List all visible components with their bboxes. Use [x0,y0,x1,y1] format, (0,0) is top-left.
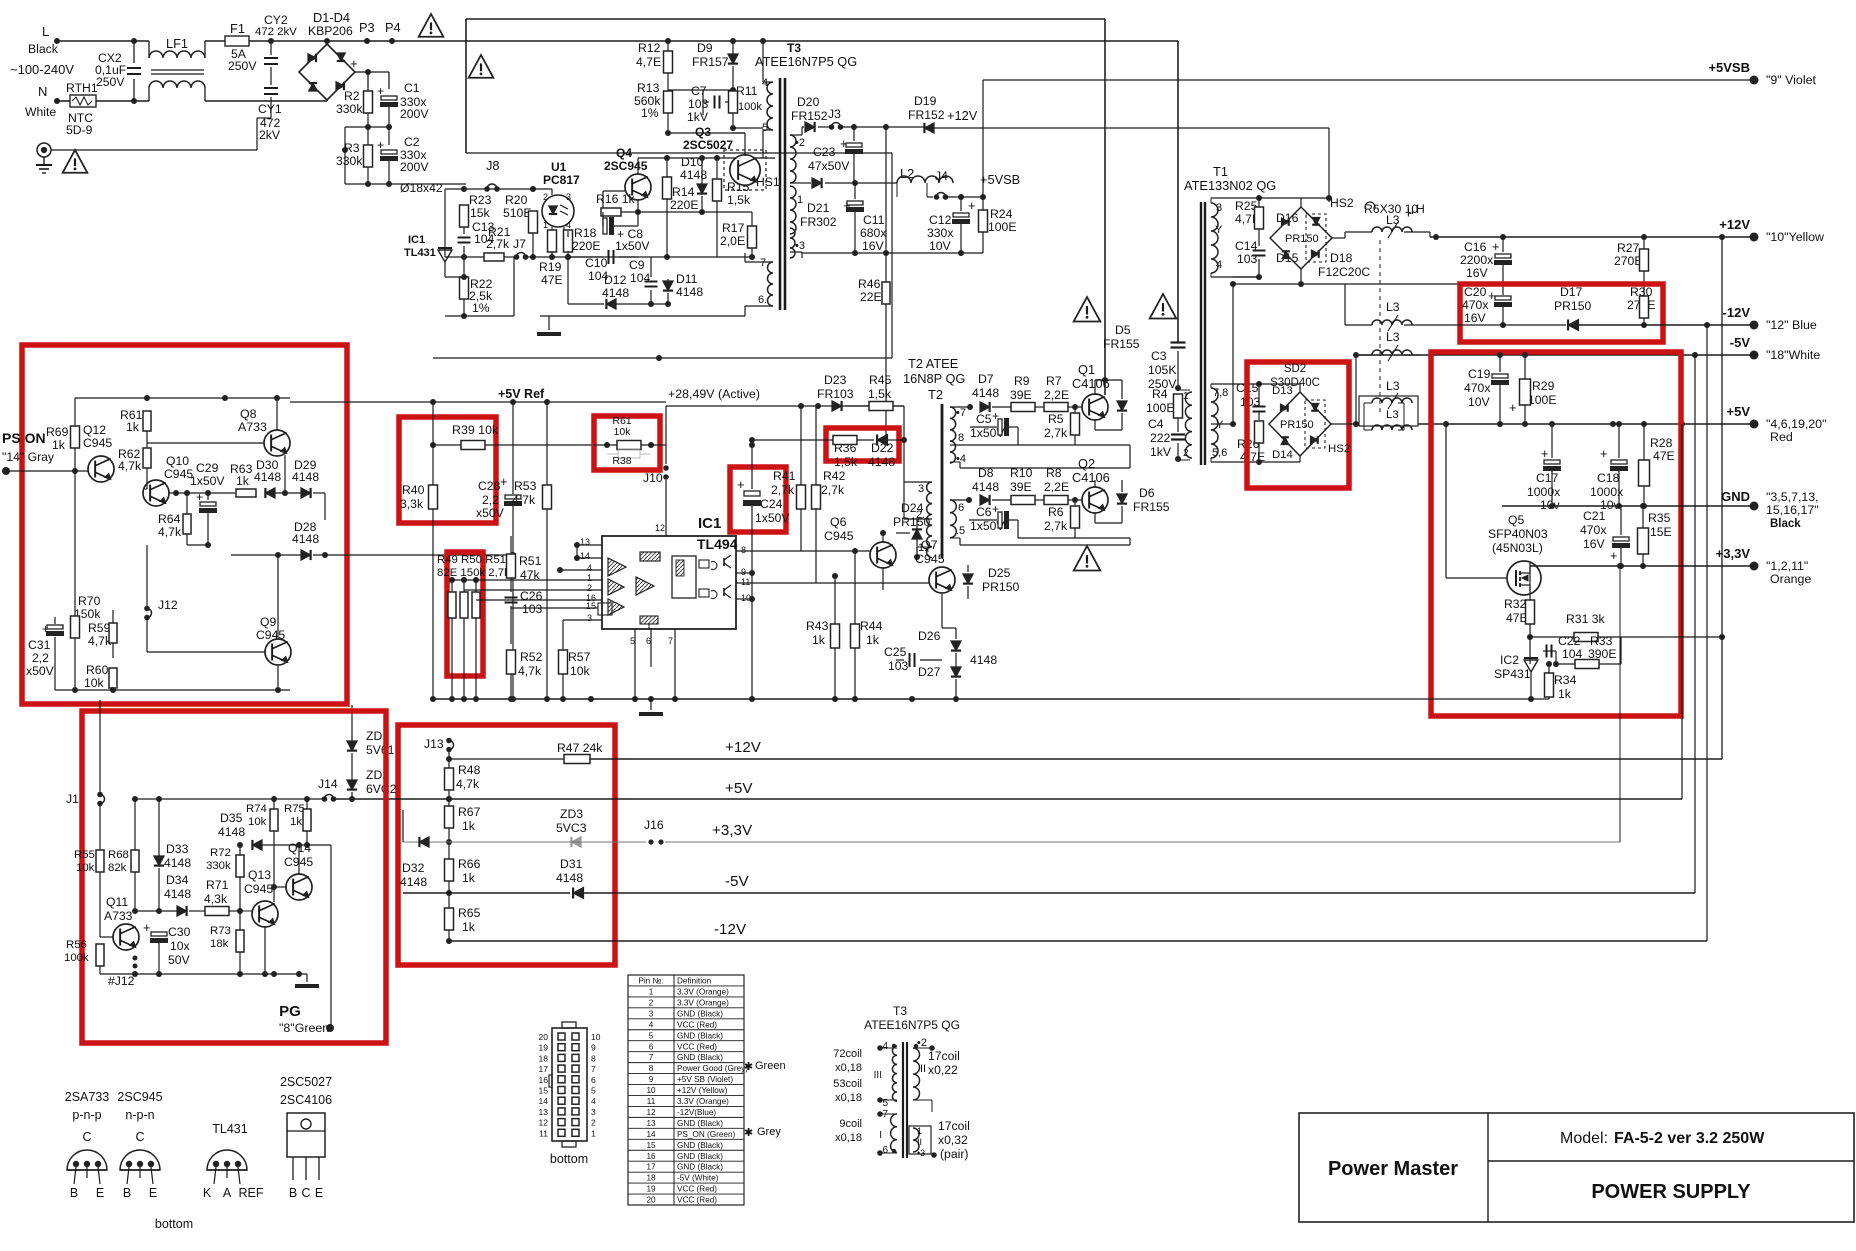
wire 5vsb riser [982,80,984,197]
wire earth [51,149,257,151]
svg-text:C28: C28 [478,479,501,493]
svg-text:100E: 100E [1528,393,1556,407]
ic internal comp3 [608,599,624,615]
red box C20 D17 R30 [1460,284,1663,342]
svg-text:J8: J8 [486,158,500,173]
svg-text:4,7k: 4,7k [118,459,142,473]
svg-text:2: 2 [587,583,592,593]
svg-text:Grey: Grey [757,1126,781,1138]
svg-text:PS_ON (Green): PS_ON (Green) [677,1130,736,1139]
warning triangle 4 [1074,297,1101,322]
svg-text:10k: 10k [76,862,95,874]
wire sd2 bottom [1299,456,1301,462]
svg-text:1%: 1% [472,301,490,315]
svg-text:Q12: Q12 [83,423,106,437]
dashed core L3 [1379,240,1381,412]
svg-text:R39 10k: R39 10k [452,423,499,437]
svg-text:200V: 200V [400,160,429,174]
svg-text:+28,49V (Active): +28,49V (Active) [668,387,760,401]
wire d21 row [802,182,811,184]
wire ic2 bottom [1240,698,1549,700]
T3d winding II upper [913,1048,920,1100]
svg-text:105K: 105K [1148,363,1176,377]
svg-text:1: 1 [917,1126,922,1136]
svg-text:-5V: -5V [1730,335,1751,350]
svg-text:C24: C24 [760,497,783,511]
svg-text:15: 15 [586,601,596,611]
svg-text:C: C [301,1186,310,1200]
svg-text:L3: L3 [1386,379,1400,393]
svg-text:E: E [315,1186,323,1200]
wire L3 to +5V [1404,423,1446,425]
svg-text:R14: R14 [672,185,695,199]
svg-text:6: 6 [591,1075,596,1085]
svg-text:B: B [70,1186,78,1200]
T1 lower winding 1-2 [1185,392,1192,458]
svg-text:C25: C25 [884,645,907,659]
svg-text:16V: 16V [1466,266,1489,280]
ic IC1 TL494 body [602,536,736,629]
svg-text:4: 4 [566,220,571,230]
svg-text:15: 15 [646,1141,656,1150]
svg-text:R29: R29 [1532,379,1555,393]
wire q14 [298,845,300,874]
wire psON right rail [289,398,291,690]
svg-text:12: 12 [655,523,665,533]
terminal PS_ON [2,467,10,475]
svg-text:C12: C12 [929,213,952,227]
svg-text:J10: J10 [643,471,663,485]
svg-text:P4: P4 [385,20,401,35]
svg-text:bottom: bottom [550,1152,588,1166]
svg-text:1,5k: 1,5k [834,455,858,469]
T3d winding III [892,1046,897,1101]
svg-text:4,7k: 4,7k [518,664,542,678]
svg-text:B: B [123,1186,131,1200]
svg-text:ATEE16N7P5 QG: ATEE16N7P5 QG [864,1018,960,1032]
svg-text:1x50V: 1x50V [755,511,790,525]
svg-text:R65: R65 [458,906,481,920]
svg-text:C22: C22 [1558,634,1581,648]
svg-text:FR152: FR152 [791,109,828,123]
svg-text:6: 6 [649,1042,654,1051]
svg-text:1k: 1k [290,816,302,828]
svg-text:PR150: PR150 [982,580,1019,594]
svg-text:Model:: Model: [1560,1130,1608,1147]
svg-text:1k: 1k [462,920,476,934]
svg-text:L3: L3 [1386,330,1400,344]
ic internal gate1 [699,560,709,568]
svg-text:16V: 16V [1464,311,1487,325]
svg-text:R17: R17 [722,221,745,235]
bus vertical x1105 [1104,19,1106,395]
svg-text:T3: T3 [893,1004,907,1018]
svg-text:R46: R46 [858,277,881,291]
svg-text:D6: D6 [1139,486,1155,500]
svg-text:7,8: 7,8 [1213,387,1228,399]
svg-text:103: 103 [1237,252,1258,266]
svg-text:D31: D31 [560,857,583,871]
svg-text:1k: 1k [126,420,140,434]
wire opto pins [551,189,553,195]
svg-text:R11: R11 [736,84,758,98]
svg-text:C6: C6 [976,505,992,519]
svg-text:+: + [1600,446,1607,461]
title divider h [1488,1160,1854,1162]
svg-text:4148: 4148 [254,470,281,484]
ic internal comp1 [608,558,626,576]
resistor R51b [472,592,480,618]
wire j7 to c10 [552,256,603,258]
wire Y tap [1211,423,1233,425]
wire q1q2 collector bus [1095,379,1122,381]
svg-text:J14: J14 [318,777,338,791]
svg-text:11: 11 [539,1128,548,1138]
svg-text:R55: R55 [74,849,95,861]
svg-text:C17: C17 [1536,471,1559,485]
svg-text:H: H [1416,202,1425,216]
terminal GND [1750,502,1759,511]
svg-text:11: 11 [741,577,750,587]
svg-text:1k: 1k [52,438,66,452]
wire q10 [146,481,148,489]
svg-text:PR150: PR150 [1285,233,1319,245]
svg-text:+: + [737,477,745,492]
svg-text:9: 9 [591,1043,596,1053]
svg-text:2SC4106: 2SC4106 [280,1093,332,1107]
svg-text:4148: 4148 [602,286,629,300]
svg-text:C29: C29 [196,461,219,475]
svg-text:2kV: 2kV [259,128,281,142]
svg-text:R48: R48 [458,763,481,777]
wire -12v rail [449,940,1707,942]
svg-text:KBP206: KBP206 [308,24,353,38]
svg-text:+5VSB: +5VSB [980,172,1020,187]
svg-text:C16: C16 [1464,240,1487,254]
svg-text:R33: R33 [1590,634,1613,648]
wire -5V [1356,354,1754,356]
svg-text:C945: C945 [915,552,945,566]
svg-text:8: 8 [741,545,746,555]
svg-text:GND (Black): GND (Black) [677,1163,723,1172]
svg-text:Definition: Definition [677,977,712,986]
svg-text:Y: Y [1215,224,1223,236]
svg-text:(45N03L): (45N03L) [1492,541,1543,555]
svg-text:HS2: HS2 [1328,443,1350,455]
svg-text:GND: GND [1721,489,1750,504]
red box 5V/3.3V regulator area [1431,352,1681,716]
wire d23 [666,405,831,407]
wire pin4 net [559,545,561,570]
svg-text:+: + [968,198,975,213]
svg-text:10: 10 [591,1032,601,1042]
ic internal gate2 [699,589,709,597]
svg-text:~100-240V: ~100-240V [10,62,74,77]
svg-text:D7: D7 [978,372,994,386]
svg-text:PC817: PC817 [543,173,580,187]
svg-text:3.3V (Orange): 3.3V (Orange) [677,987,729,996]
svg-text:10k: 10k [248,816,267,828]
svg-text:2,2: 2,2 [482,493,499,507]
svg-text:2SC5027: 2SC5027 [280,1075,332,1089]
svg-text:47E: 47E [1653,449,1675,463]
svg-text:16: 16 [539,1075,549,1085]
svg-text:7: 7 [591,1064,596,1074]
svg-text:GND (Black): GND (Black) [677,1009,723,1018]
svg-text:B: B [289,1186,297,1200]
svg-text:D25: D25 [988,566,1011,580]
svg-text:+3,3V: +3,3V [712,822,753,839]
svg-text:Y: Y [1216,419,1224,431]
svg-text:47E: 47E [1506,611,1528,625]
wire J10 vert [665,406,667,464]
T3d winding I [891,1114,897,1152]
svg-text:2200x: 2200x [1460,253,1493,267]
svg-text:IC1: IC1 [408,234,425,246]
svg-text:C945: C945 [83,436,112,450]
svg-text:C10: C10 [585,256,608,270]
svg-text:470x: 470x [1580,523,1606,537]
svg-text:n-p-n: n-p-n [125,1108,154,1122]
svg-text:L: L [42,24,49,39]
svg-text:LF1: LF1 [166,36,188,51]
svg-text:FR157: FR157 [692,55,729,69]
svg-text:+3,3V: +3,3V [1716,546,1751,561]
svg-text:Q10: Q10 [166,454,189,468]
wire primary gnd rail [433,357,892,359]
svg-text:C9: C9 [629,258,645,272]
svg-text:Q4: Q4 [616,146,632,160]
svg-text:-5V (White): -5V (White) [677,1174,719,1183]
svg-text:(pair): (pair) [940,1147,968,1161]
svg-text:J1: J1 [66,792,79,806]
svg-text:SP431: SP431 [1494,667,1531,681]
svg-text:FR152: FR152 [908,108,945,122]
transformer T2 core [941,404,944,558]
svg-text:D26: D26 [918,629,941,643]
svg-text:250V: 250V [96,75,125,89]
svg-text:5V61: 5V61 [366,743,395,757]
wire +5v rail [333,798,1682,800]
svg-text:1000x: 1000x [1590,485,1623,499]
svg-text:R2: R2 [344,89,360,103]
svg-text:-12V: -12V [714,921,747,938]
svg-text:R24: R24 [990,207,1013,221]
svg-text:GND (Black): GND (Black) [677,1152,723,1161]
wire r11 bottom [732,113,734,128]
wire 440 main [665,444,667,446]
svg-text:50V: 50V [168,953,191,967]
svg-text:2,0E: 2,0E [720,234,745,248]
svg-text:2,2: 2,2 [32,651,49,665]
svg-text:C: C [82,1130,91,1144]
svg-text:8: 8 [591,1053,596,1063]
svg-text:R27: R27 [1617,241,1640,255]
svg-text:R53: R53 [514,479,537,493]
svg-text:R40: R40 [402,483,425,497]
svg-text:D17: D17 [1560,285,1583,299]
red box PS_ON [22,345,347,704]
svg-text:11: 11 [647,1097,656,1106]
svg-text:18: 18 [539,1053,549,1063]
svg-text:R13: R13 [637,81,660,95]
wire q11 [99,930,101,937]
svg-text:•2: •2 [795,137,805,149]
ground sym ic1 [650,699,652,710]
svg-text:12: 12 [646,1108,656,1117]
svg-text:7: 7 [760,257,766,269]
svg-text:D14: D14 [1272,449,1293,461]
svg-text:R51: R51 [519,554,542,568]
svg-text:CY1: CY1 [258,102,282,116]
warning triangle 2 [419,14,444,37]
wire q4 collector [637,158,639,174]
wire snubber rail [466,152,892,154]
svg-text:+12V: +12V [1719,217,1750,232]
svg-text:T2: T2 [928,387,943,402]
terminal +5VSB [1750,76,1759,85]
svg-text:x50V: x50V [26,664,55,678]
svg-text:17coil: 17coil [928,1049,960,1063]
svg-text:D5: D5 [1115,323,1131,337]
svg-text:Q5: Q5 [1508,513,1524,527]
svg-text:R7: R7 [1046,374,1062,388]
svg-text:L3: L3 [1386,300,1400,314]
svg-text:C945: C945 [244,882,273,896]
wire top rail B [466,18,1105,20]
notch [549,1075,552,1087]
svg-text:R3: R3 [344,141,360,155]
svg-text:I: I [879,1130,882,1141]
wire y699 long [431,698,1240,700]
svg-text:+: + [1509,400,1516,415]
wire bottom tl431 [445,276,464,278]
riser +5V [1681,424,1683,799]
resistor R50b [460,592,468,618]
svg-text:4: 4 [1216,259,1222,271]
wire bridge plus [355,71,368,73]
wire d10 r16 row [638,211,702,213]
svg-text:220E: 220E [670,198,698,212]
svg-text:D20: D20 [797,95,820,109]
svg-text:3: 3 [1216,202,1222,214]
riser -5V [1694,355,1696,893]
T1 secondary winding 3-Y-4 [1211,203,1218,273]
svg-text:C4106: C4106 [1072,470,1110,485]
svg-text:1: 1 [797,194,803,206]
warning triangle 1 [63,150,88,173]
svg-text:+12V (Yellow): +12V (Yellow) [677,1086,728,1095]
svg-text:R28: R28 [1650,436,1673,450]
svg-text:D24: D24 [901,501,924,515]
svg-text:1,5k: 1,5k [727,193,751,207]
svg-text:"14" Gray: "14" Gray [2,450,55,464]
svg-text:8: 8 [649,1064,654,1073]
svg-text:5VC3: 5VC3 [556,821,587,835]
svg-text:A733: A733 [238,420,267,434]
svg-text:3: 3 [566,192,571,202]
svg-text:R34: R34 [1554,673,1577,687]
T2 primary 3-2-1 [927,482,932,558]
svg-text:103: 103 [688,97,709,111]
svg-text:100E: 100E [988,220,1016,234]
svg-text:C1: C1 [404,81,420,95]
svg-text:#J12: #J12 [108,974,135,988]
svg-text:R73: R73 [210,925,231,937]
wire q10 emitter row [169,492,235,494]
capacitor C3 105K [1177,338,1179,342]
svg-text:C23: C23 [813,145,836,159]
svg-text:SFP40N03: SFP40N03 [1488,527,1548,541]
red box R49 R50 R51 [447,552,483,676]
svg-text:2,7k: 2,7k [1044,426,1068,440]
svg-text:1k: 1k [236,474,250,488]
svg-text:10V: 10V [1468,395,1491,409]
svg-text:TL431: TL431 [212,1122,247,1136]
svg-text:14: 14 [580,551,590,561]
svg-text:+5V: +5V [1727,404,1751,419]
wire sd2 top [1259,383,1300,385]
svg-text:Black: Black [1770,518,1801,530]
svg-text:GND (Black): GND (Black) [677,1053,723,1062]
svg-text:U1: U1 [551,160,567,174]
svg-text:C5: C5 [976,412,992,426]
svg-text:4148: 4148 [680,168,707,182]
diode DQ1 [1117,401,1127,411]
wire q6 base [801,550,870,552]
svg-text:4: 4 [587,563,592,573]
svg-text:R68: R68 [108,849,129,861]
red box J13 [398,725,615,965]
svg-text:330k: 330k [206,860,231,872]
svg-text:510E: 510E [503,206,531,220]
wire GND rail [1502,505,1754,507]
ghost resistor [618,450,640,458]
wire mid node [367,113,369,145]
wire to bridge T1 [1328,128,1330,202]
svg-text:2,7k: 2,7k [821,483,845,497]
svg-text:D8: D8 [978,466,994,480]
svg-text:2: 2 [591,1118,596,1128]
wire l2 out [926,183,928,197]
svg-text:R66: R66 [458,857,481,871]
ic internal amp [636,577,654,595]
riser +3,3V [1619,566,1621,842]
terminal -12V [1750,321,1759,330]
svg-text:2,7k: 2,7k [771,483,795,497]
svg-text:100E: 100E [1146,401,1174,415]
wire q9 [277,555,279,638]
wire T1 sec to bridge [1259,197,1301,199]
pin table [628,975,744,1205]
capacitor CY1 [270,67,272,85]
svg-text:6: 6 [958,502,964,514]
svg-text:C4: C4 [1148,417,1164,431]
svg-text:D11: D11 [676,272,698,286]
svg-text:TL494: TL494 [697,536,738,552]
svg-text:Q6: Q6 [830,515,847,529]
svg-text:19: 19 [646,1185,656,1194]
svg-text:250V: 250V [228,59,257,73]
svg-text:470x: 470x [1462,298,1488,312]
red box R38 [594,416,660,470]
riser -12V [1706,325,1708,941]
wire N line [57,100,70,102]
svg-text:+: + [500,474,507,489]
svg-text:T2 ATEE: T2 ATEE [908,356,958,371]
svg-text:"3,5,7,13,: "3,5,7,13, [1766,490,1819,504]
svg-text:A733: A733 [104,909,133,923]
